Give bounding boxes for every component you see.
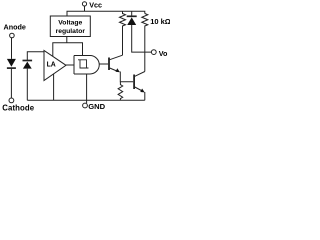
svg-text:Cathode: Cathode — [2, 104, 34, 113]
svg-text:10 kΩ: 10 kΩ — [150, 17, 170, 26]
terminal Vcc — [82, 1, 102, 12]
schmitt gate U2 — [74, 56, 99, 75]
wire R1 to Q1 collector — [122, 27, 124, 56]
wire LED to cathode — [10, 69, 12, 98]
ground rail — [27, 99, 145, 101]
wire gate output to Q1 base — [99, 63, 108, 65]
terminal Cathode — [2, 98, 34, 113]
resistor R2 10k — [142, 14, 171, 27]
op-amp LA — [44, 51, 66, 81]
svg-text:Vcc: Vcc — [89, 1, 102, 10]
terminal Vo — [151, 49, 168, 58]
resistor R1 — [120, 11, 126, 26]
Vcc rail — [67, 11, 145, 16]
wire LA output to gate — [66, 64, 74, 66]
svg-text:Voltage: Voltage — [58, 19, 82, 26]
LED D1 — [7, 59, 16, 68]
svg-text:GND: GND — [88, 102, 105, 111]
wire photodiode cathode to LA input — [27, 52, 44, 61]
wire gate ground stub — [86, 74, 88, 103]
wire R2 to Q2 collector — [144, 27, 146, 72]
wire anode to LED — [11, 38, 13, 59]
wire regulator output to LA and gate — [53, 37, 83, 57]
resistor R3 (Q1 emitter to ground) — [118, 82, 123, 101]
terminal GND — [83, 102, 106, 111]
wire Q1 emitter to Q2 base — [120, 72, 133, 82]
terminal Anode — [4, 23, 26, 38]
svg-text:LA: LA — [47, 62, 56, 69]
transistor Q1 — [109, 55, 123, 72]
transistor Q2 — [134, 72, 145, 93]
svg-text:Anode: Anode — [4, 23, 26, 32]
svg-text:Vo: Vo — [159, 49, 168, 58]
photodiode D2 — [23, 61, 33, 69]
voltage regulator U1 — [50, 16, 90, 37]
wire Q2 emitter to ground rail — [144, 92, 146, 100]
wire D3 anode to Vo node — [132, 25, 152, 52]
diode D3 — [127, 11, 137, 25]
wire LA ground stub — [53, 74, 55, 101]
svg-text:regulator: regulator — [56, 28, 86, 35]
wire photodiode anode down to ground rail — [26, 69, 28, 101]
